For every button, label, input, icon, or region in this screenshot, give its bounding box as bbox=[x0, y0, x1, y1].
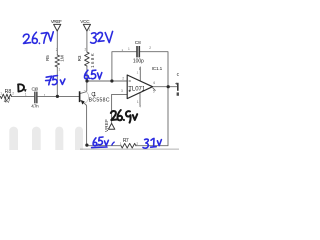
svg-text:6: 6 bbox=[153, 81, 155, 85]
svg-text:1: 1 bbox=[44, 93, 46, 97]
svg-text:4K7: 4K7 bbox=[4, 99, 11, 105]
svg-text:2: 2 bbox=[136, 142, 138, 146]
svg-text:C10: C10 bbox=[32, 86, 39, 91]
svg-text:TL071: TL071 bbox=[128, 86, 146, 92]
svg-text:IC1.1: IC1.1 bbox=[152, 66, 163, 71]
svg-text:1: 1 bbox=[25, 92, 27, 96]
svg-text:2: 2 bbox=[122, 76, 124, 80]
svg-text:8: 8 bbox=[139, 67, 141, 71]
svg-text:C: C bbox=[177, 72, 179, 77]
svg-text:BC558C: BC558C bbox=[89, 98, 110, 104]
svg-text:R7: R7 bbox=[123, 138, 129, 144]
svg-text:R8: R8 bbox=[5, 89, 12, 95]
svg-text:5: 5 bbox=[153, 90, 155, 94]
svg-text:1: 1 bbox=[89, 28, 91, 32]
svg-text:1: 1 bbox=[137, 100, 139, 104]
svg-text:2: 2 bbox=[12, 92, 14, 96]
svg-text:1: 1 bbox=[0, 92, 2, 96]
svg-text:VREF: VREF bbox=[104, 119, 109, 132]
svg-text:168K: 168K bbox=[90, 53, 95, 68]
svg-text:VREF: VREF bbox=[51, 19, 62, 24]
svg-text:4: 4 bbox=[139, 105, 141, 109]
svg-text:R3: R3 bbox=[77, 55, 82, 61]
svg-text:4.7n: 4.7n bbox=[31, 104, 39, 109]
svg-text:100p: 100p bbox=[133, 59, 144, 65]
svg-text:1: 1 bbox=[128, 47, 130, 51]
svg-text:R5: R5 bbox=[45, 55, 50, 61]
svg-text:C8: C8 bbox=[135, 40, 141, 46]
svg-text:VCC: VCC bbox=[80, 19, 90, 24]
svg-text:4: 4 bbox=[177, 93, 179, 97]
svg-text:2: 2 bbox=[56, 48, 58, 52]
svg-text:1M: 1M bbox=[59, 55, 64, 62]
svg-text:2: 2 bbox=[149, 46, 151, 50]
svg-text:1: 1 bbox=[59, 68, 61, 72]
svg-text:1: 1 bbox=[120, 142, 122, 146]
svg-text:2: 2 bbox=[85, 47, 87, 51]
svg-text:3: 3 bbox=[121, 89, 123, 93]
